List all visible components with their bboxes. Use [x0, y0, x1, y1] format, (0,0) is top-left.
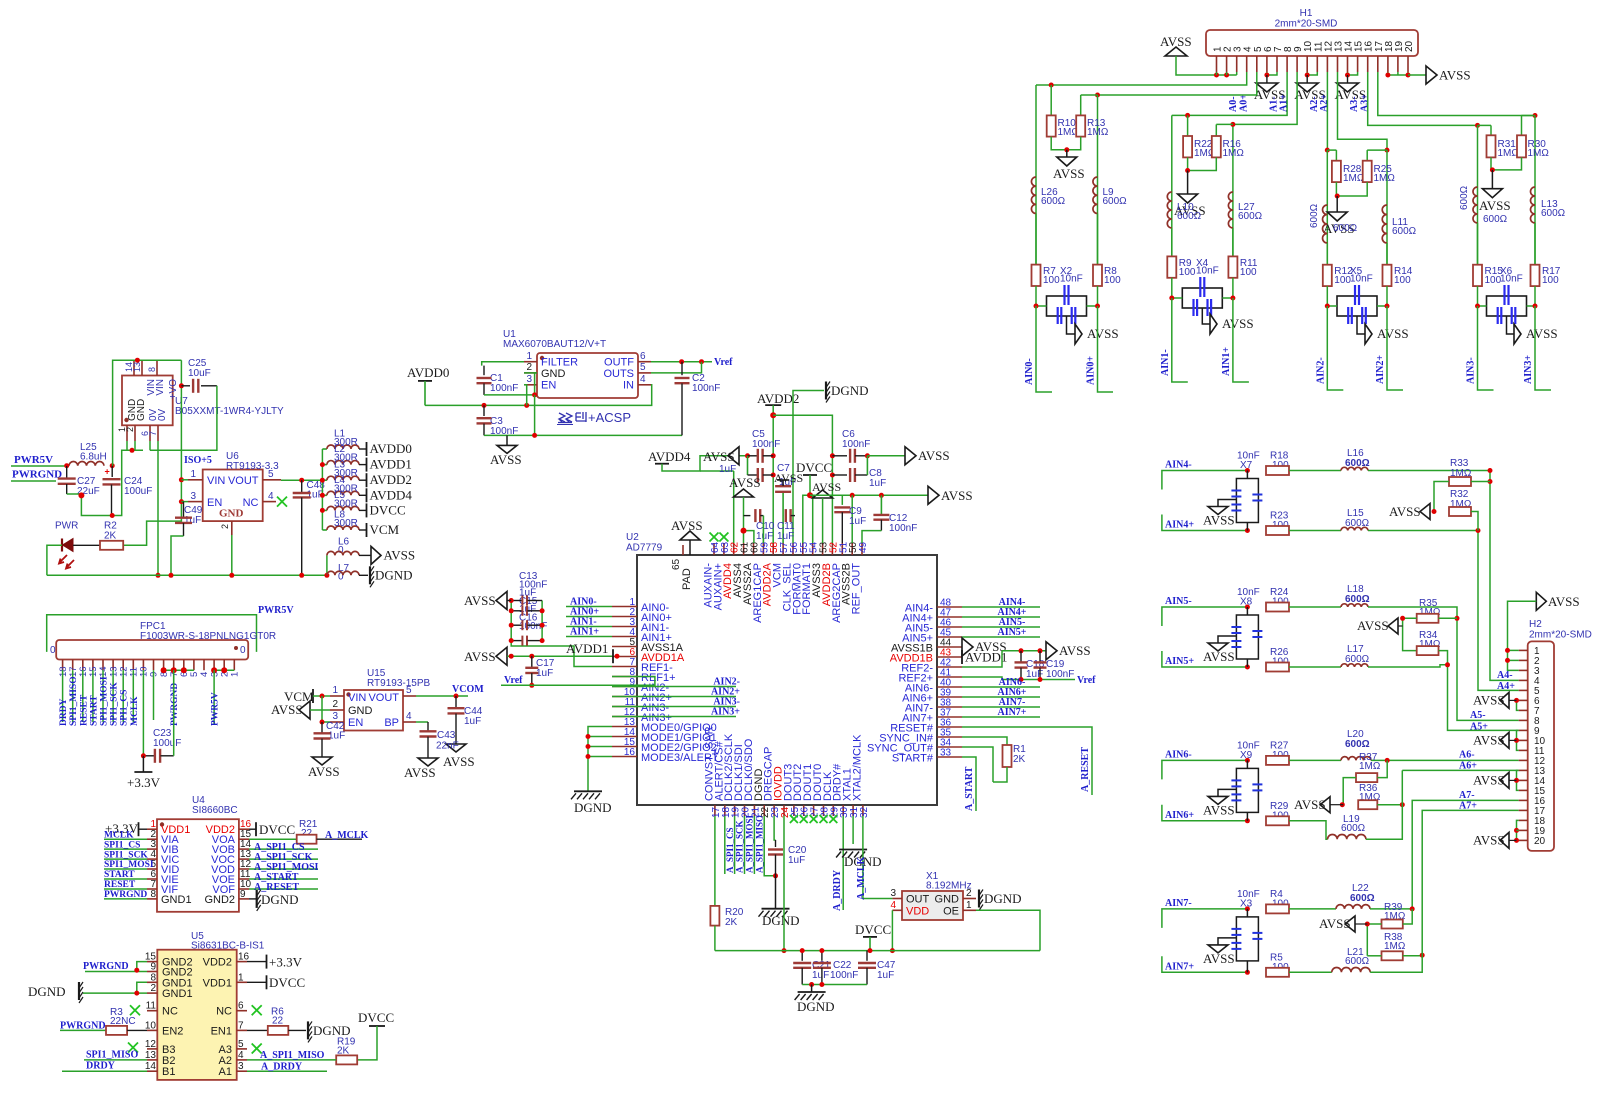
wire: [1527, 286, 1536, 306]
no-connect X on pin 29: [829, 815, 837, 823]
svg-text:AIN0+: AIN0+: [1086, 356, 1097, 385]
svg-text:DGND: DGND: [28, 984, 66, 999]
resistor R31: [1478, 124, 1492, 126]
svg-text:32: 32: [859, 806, 870, 818]
junction: [134, 968, 139, 973]
junction: [1245, 758, 1250, 763]
pin 4 of U2: [612, 636, 637, 638]
wire: [313, 695, 330, 697]
svg-text:16: 16: [624, 747, 636, 758]
wire: [1508, 659, 1519, 661]
svg-text:AVSS: AVSS: [464, 649, 496, 664]
svg-text:DGND: DGND: [831, 383, 869, 398]
wire: [249, 858, 318, 860]
pin 6 of FPC1: [183, 660, 185, 671]
pin 8 of FPC1: [163, 660, 165, 671]
svg-text:A4-: A4-: [1497, 670, 1513, 681]
svg-text:AVDD1: AVDD1: [965, 650, 1007, 665]
svg-text:AVSS: AVSS: [1203, 802, 1235, 817]
junction: [1305, 73, 1310, 78]
svg-text:SPI1_MISO: SPI1_MISO: [69, 676, 79, 726]
power port AVSS: [689, 540, 691, 555]
junction: [1169, 296, 1174, 301]
svg-text:8: 8: [150, 972, 156, 983]
junction: [1533, 113, 1538, 118]
junction: [868, 948, 873, 953]
junction: [850, 493, 855, 498]
wire: [962, 606, 1040, 608]
svg-text:PAD: PAD: [681, 568, 693, 590]
filter capacitor X6 10nF: [1487, 296, 1527, 316]
pin 1 of H1: [1216, 56, 1218, 72]
svg-text:7: 7: [238, 1020, 244, 1031]
svg-text:A_SPI1_MOSI: A_SPI1_MOSI: [745, 814, 755, 873]
wire: [84, 1059, 147, 1061]
wire AVSS2B: [851, 495, 853, 543]
pin 6 of U1: [638, 361, 651, 363]
svg-text:PWR: PWR: [55, 521, 78, 532]
svg-text:300R: 300R: [334, 518, 358, 529]
junction: [890, 948, 895, 953]
pin 8 of H2: [1519, 719, 1528, 721]
svg-text:600Ω: 600Ω: [1345, 739, 1370, 750]
wire: [92, 670, 94, 722]
connector H2: [1528, 641, 1554, 851]
svg-text:AIN5-: AIN5-: [1165, 596, 1192, 607]
power port DVCC: [266, 975, 268, 989]
svg-text:AIN1-: AIN1-: [1160, 349, 1171, 376]
junction: [540, 623, 545, 628]
ground AVSS: [506, 435, 508, 445]
wire XTAL1 pin31 to DGND: [852, 816, 854, 844]
svg-text:A6-: A6-: [1459, 750, 1475, 761]
junction: [1038, 677, 1043, 682]
wire: [1478, 286, 1487, 306]
pin 9 of FPC1: [153, 660, 155, 671]
pin 4 of U15: [403, 721, 416, 723]
wire: [102, 670, 104, 722]
wire ISO+5 vertical: [123, 360, 181, 545]
svg-text:VIN: VIN: [348, 692, 366, 704]
wire AVSS4/AVSS2A: [743, 497, 745, 543]
svg-text:AVDD4: AVDD4: [648, 449, 691, 464]
pin 5 of H2: [1519, 689, 1528, 691]
isolator U4: [157, 819, 239, 912]
wire: [1162, 471, 1248, 490]
wire VCM to EN: [322, 696, 330, 722]
pin 36 of U2: [937, 726, 962, 728]
pin 44 of U2: [937, 646, 962, 648]
pin 25 of U2: [793, 805, 795, 816]
pin 19 of H2: [1519, 829, 1528, 831]
svg-text:5: 5: [238, 1039, 244, 1050]
pin 17 of FPC1: [72, 660, 74, 671]
junction: [156, 573, 161, 578]
svg-text:GND2: GND2: [204, 894, 235, 906]
svg-text:10nF: 10nF: [1500, 273, 1523, 284]
junction: [1385, 758, 1390, 763]
wire PWR5V loop: [47, 615, 257, 652]
svg-text:10nF: 10nF: [1196, 265, 1219, 276]
junction: [509, 598, 514, 603]
pin 3 of U4: [147, 848, 157, 850]
wire: [1508, 649, 1519, 651]
pin 62 of U2: [733, 543, 735, 555]
svg-text:1MΩ: 1MΩ: [1528, 148, 1550, 159]
junction: [299, 478, 304, 483]
wire: [173, 670, 175, 722]
wire A7- net: [1370, 800, 1519, 909]
svg-text:DRDY: DRDY: [59, 698, 69, 726]
junction: [1455, 616, 1460, 621]
pin 6 of U2: [612, 656, 637, 658]
inductor L25: [69, 462, 104, 466]
pin 1 of U2: [612, 606, 637, 608]
pin 18 of H2: [1519, 819, 1528, 821]
svg-text:AVSS: AVSS: [1087, 326, 1119, 341]
svg-text:EN: EN: [541, 380, 556, 392]
junction: [320, 462, 325, 467]
wire: [962, 706, 1040, 708]
svg-text:2mm*20-SMD: 2mm*20-SMD: [1529, 630, 1592, 641]
no-connect X on pin 26: [800, 815, 808, 823]
wire MODE pins: [588, 727, 612, 792]
no-connect X on pin 27: [810, 815, 818, 823]
junction: [221, 667, 227, 673]
junction: [320, 508, 325, 513]
junction: [1245, 970, 1250, 975]
ground DGND: [574, 790, 602, 792]
junction: [524, 403, 529, 408]
wire: [1397, 72, 1399, 75]
inductor L14: [1473, 187, 1478, 223]
pin 35 of U2: [937, 736, 962, 738]
wire: [1517, 699, 1519, 701]
wire: [1307, 72, 1317, 75]
junction: [532, 433, 537, 438]
pin 11 of U2: [612, 706, 637, 708]
wire C18/C19 top: [1002, 650, 1046, 652]
wire C bottom rail: [484, 434, 682, 436]
junction: [1533, 304, 1538, 309]
svg-text:+: +: [105, 467, 110, 477]
inductor L9: [1093, 177, 1098, 213]
wire A6+ net: [1402, 769, 1518, 771]
svg-text:AVSS: AVSS: [1473, 773, 1505, 788]
wire: [1434, 482, 1449, 512]
svg-text:RT9193-15PB: RT9193-15PB: [367, 678, 431, 689]
wire: [588, 746, 612, 748]
wire A5+ net: [1368, 665, 1519, 731]
svg-text:A1: A1: [219, 1066, 232, 1078]
svg-text:3: 3: [190, 491, 196, 502]
svg-text:8: 8: [147, 367, 157, 372]
power port AVSS: [1345, 916, 1355, 932]
svg-text:DGND: DGND: [574, 800, 612, 815]
svg-text:PWRGND: PWRGND: [104, 890, 147, 900]
svg-text:22: 22: [272, 1016, 284, 1027]
pin 10 of U4: [239, 888, 249, 890]
svg-text:Vref: Vref: [1077, 675, 1096, 686]
wire: [104, 888, 147, 890]
pin 4 of U5: [237, 1059, 247, 1061]
svg-text:9: 9: [240, 889, 246, 900]
wire: [511, 601, 612, 667]
pin 2 of U1: [524, 372, 537, 374]
svg-text:START#: START#: [892, 753, 934, 765]
pin 16 of FPC1: [82, 660, 84, 671]
svg-text:A3+: A3+: [1359, 94, 1370, 112]
pin 1 of H2: [1519, 649, 1528, 651]
pin 5 of U5: [237, 1048, 247, 1050]
wire: [1367, 924, 1381, 956]
power port AVDD1: [961, 650, 963, 664]
pin 14 of FPC1: [102, 660, 104, 671]
wire: [1535, 306, 1551, 390]
wire: [62, 1070, 147, 1072]
wire: [1534, 223, 1536, 265]
wire: [1162, 651, 1248, 667]
wire: [1036, 84, 1051, 86]
pin 14 of H1: [1347, 56, 1349, 72]
wire AIN2- vertical: [1326, 150, 1328, 265]
power port AVSS: [905, 447, 916, 465]
wire: [249, 868, 318, 870]
pin 5 of U2: [612, 646, 637, 648]
svg-text:AVSS: AVSS: [729, 475, 761, 490]
pin 1 of X1: [963, 909, 976, 911]
resistor R13: [1080, 95, 1082, 115]
junction: [320, 478, 325, 483]
pin 21 of U2: [753, 805, 755, 816]
wire: [1172, 278, 1183, 298]
svg-text:Si8631BC-B-IS1: Si8631BC-B-IS1: [191, 941, 265, 952]
no-connect X on pin 64: [710, 533, 719, 542]
power port VCM: [366, 523, 368, 537]
junction: [134, 991, 139, 996]
svg-text:+3.3V: +3.3V: [269, 955, 303, 970]
svg-text:ISO+5: ISO+5: [184, 455, 212, 466]
wire: [612, 706, 736, 708]
ground DGND: [811, 985, 813, 993]
pin 3 of H1: [1236, 56, 1238, 72]
svg-text:+VO: +VO: [168, 379, 179, 400]
no-connect X on pin 28: [820, 815, 828, 823]
inductor L8 300R: [322, 529, 327, 531]
svg-text:8.192MHz: 8.192MHz: [926, 881, 972, 892]
pin 4 of U4: [147, 858, 157, 860]
svg-text:AVSS: AVSS: [384, 548, 416, 563]
svg-text:A_SPI1_MISO: A_SPI1_MISO: [754, 815, 764, 873]
wire: [1236, 72, 1238, 75]
pin 13 of H2: [1519, 769, 1528, 771]
no-connect X on U5 pin6: [252, 1005, 262, 1015]
wire AIN0- vertical: [1035, 85, 1037, 265]
wire SYNC_OUT#: [962, 747, 993, 782]
wire AIN2+ vertical: [1386, 150, 1388, 265]
wire: [1370, 955, 1422, 972]
power port DGND: [978, 890, 980, 908]
wire: [1162, 956, 1248, 972]
junction: [1214, 73, 1219, 78]
svg-text:AVSS: AVSS: [308, 764, 340, 779]
svg-text:100: 100: [1394, 275, 1411, 286]
svg-text:A7-: A7-: [1459, 790, 1475, 801]
power port +3.3V: [142, 756, 144, 772]
junction: [1514, 778, 1519, 783]
wire: [962, 616, 1040, 618]
junction: [819, 948, 824, 953]
svg-text:VCOM: VCOM: [452, 684, 484, 695]
dc-dc converter U7: [122, 376, 173, 426]
pin 15 of H1: [1357, 56, 1359, 72]
wire: [1403, 955, 1422, 957]
power port AVSS: [496, 592, 507, 610]
pin 4 of FPC1: [203, 660, 205, 671]
wire Vref out: [651, 361, 712, 363]
wire: [1035, 214, 1037, 265]
wire: [104, 878, 147, 880]
svg-text:1: 1: [966, 900, 972, 911]
ground AVSS: [418, 758, 438, 766]
pin 12 of H1: [1326, 56, 1328, 72]
wire: [1377, 286, 1387, 306]
wire: [1036, 306, 1052, 392]
wire: [862, 531, 881, 543]
svg-text:600Ω: 600Ω: [1333, 223, 1358, 234]
wire: [566, 626, 612, 628]
junction: [586, 734, 591, 739]
pin 33 of U2: [937, 756, 962, 758]
svg-text:600Ω: 600Ω: [1350, 893, 1375, 904]
power port AVDD0: [366, 442, 368, 456]
junction: [130, 448, 135, 453]
wire: [744, 816, 746, 874]
wire: [137, 982, 147, 993]
pin 64 of U2: [713, 543, 715, 555]
pin 18 of FPC1: [62, 660, 64, 671]
pin 8 of H1: [1286, 56, 1288, 72]
wire: [566, 606, 612, 608]
svg-text:600Ω: 600Ω: [1483, 214, 1508, 225]
svg-text:AIN0-: AIN0-: [1024, 358, 1035, 385]
wire: [1388, 72, 1408, 75]
resistor R28: [1327, 149, 1336, 151]
svg-text:AVDD1: AVDD1: [566, 641, 608, 656]
wire AVDD4: [662, 456, 748, 471]
wire: [249, 888, 318, 890]
svg-text:600Ω: 600Ω: [1238, 211, 1263, 222]
svg-text:MCLK: MCLK: [104, 830, 134, 840]
wire: [1343, 778, 1356, 805]
svg-text:4: 4: [406, 711, 412, 722]
junction: [879, 493, 884, 498]
svg-text:AVSS: AVSS: [1222, 316, 1254, 331]
regulator U6: [203, 470, 263, 522]
resistor R7: [1032, 265, 1041, 286]
junction: [1034, 304, 1039, 309]
wire: [1471, 481, 1490, 483]
pin 20 of U2: [744, 805, 746, 816]
wire: [122, 670, 124, 722]
wire RESET# to A_RESET: [962, 727, 1092, 795]
power port AVSS: [928, 486, 939, 504]
wire AIN3+ vertical: [1534, 116, 1536, 265]
junction: [1400, 802, 1405, 807]
svg-text:OE: OE: [943, 906, 959, 918]
svg-text:+3.3V: +3.3V: [127, 775, 161, 790]
wire: [1348, 72, 1358, 75]
svg-text:PWRGND: PWRGND: [170, 683, 180, 726]
svg-text:AVDD0: AVDD0: [407, 365, 449, 380]
capacitor: [511, 640, 522, 642]
wire: [1097, 214, 1099, 265]
wire: [962, 716, 1040, 718]
svg-text:A_MCLK: A_MCLK: [856, 856, 867, 900]
junction: [540, 638, 545, 643]
svg-text:SPI1_SCK: SPI1_SCK: [110, 682, 120, 726]
junction: [586, 744, 591, 749]
svg-text:AIN3+: AIN3+: [711, 707, 740, 718]
svg-text:2: 2: [332, 699, 338, 710]
pin 14 of U4: [239, 848, 249, 850]
pin 15 of H2: [1519, 789, 1528, 791]
power port AVSS: [1500, 732, 1509, 748]
junction: [64, 463, 69, 468]
svg-text:PWRGND: PWRGND: [12, 469, 62, 481]
inductor L5 300R: [322, 509, 327, 511]
svg-text:0: 0: [50, 645, 56, 656]
svg-text:START: START: [89, 695, 99, 726]
svg-text:100nF: 100nF: [692, 383, 720, 394]
pin 2 of X1: [963, 898, 976, 900]
resistor R8: [1093, 265, 1102, 286]
junction: [78, 492, 84, 498]
svg-text:A_MCLK: A_MCLK: [325, 830, 369, 841]
wire: [1386, 243, 1388, 265]
wire: [1226, 72, 1228, 75]
junction: [771, 453, 776, 458]
svg-text:SPI1_MISO: SPI1_MISO: [86, 1050, 138, 1061]
pin 3 of U6: [188, 501, 203, 503]
svg-text:AIN4+: AIN4+: [1165, 520, 1194, 531]
svg-text:B05XXMT-1WR4-YJLTY: B05XXMT-1WR4-YJLTY: [175, 406, 284, 417]
junction: [1406, 73, 1411, 78]
pin 7 of U4: [147, 888, 157, 890]
wire: [357, 1026, 377, 1060]
power port AVSS: [371, 546, 381, 564]
svg-text:SPI1_MOSI: SPI1_MOSI: [104, 860, 154, 870]
wire: [534, 395, 536, 436]
svg-text:12: 12: [145, 1039, 157, 1050]
svg-text:1MΩ: 1MΩ: [1374, 173, 1396, 184]
svg-text:NC: NC: [243, 497, 259, 509]
pin 24 of U2: [783, 805, 785, 816]
wire: [82, 670, 84, 722]
wire: [1162, 805, 1248, 821]
inductor L4 300R: [322, 494, 327, 496]
junction: [509, 654, 514, 659]
svg-text:DVCC: DVCC: [796, 460, 832, 475]
wire: [1408, 74, 1426, 76]
wire: [1377, 804, 1402, 806]
pin 46 of U2: [937, 626, 962, 628]
pin 37 of U2: [937, 716, 962, 718]
pin 27 of U2: [813, 805, 815, 816]
svg-text:AVSS: AVSS: [1203, 951, 1235, 966]
power port AVSS: [1388, 618, 1398, 634]
pin 57 of U2: [782, 543, 784, 555]
